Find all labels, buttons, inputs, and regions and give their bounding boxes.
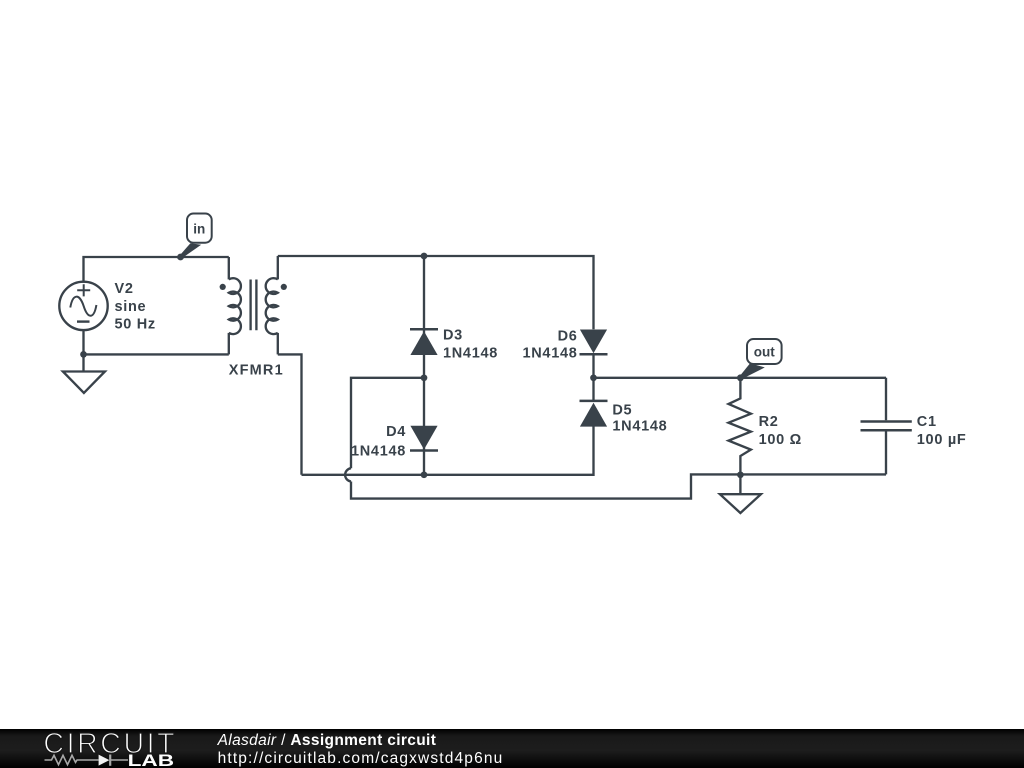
svg-text:50 Hz: 50 Hz [115, 317, 156, 333]
footer url text [218, 750, 504, 768]
wire top-left rail [84, 257, 229, 283]
capacitor C1 [861, 378, 912, 475]
svg-text:1N4148: 1N4148 [351, 444, 406, 460]
node junction at source bottom [80, 351, 87, 358]
label out flag [740, 339, 782, 379]
wire D3 column [423, 256, 425, 378]
label D3 [443, 328, 498, 362]
diode D3 [410, 329, 438, 355]
wire D4 column [423, 378, 425, 475]
svg-text:C1: C1 [917, 414, 937, 430]
wire D6-D5 junction [592, 354, 594, 400]
svg-text:100 Ω: 100 Ω [759, 432, 802, 448]
label D5 [612, 403, 667, 435]
ground under V2 [63, 354, 105, 393]
svg-text:V2: V2 [115, 281, 134, 297]
svg-text:in: in [193, 222, 205, 237]
resistor R2 [729, 378, 751, 475]
svg-text:R2: R2 [759, 414, 779, 430]
transformer XFMR1 [220, 256, 287, 354]
ground under R2 [720, 475, 761, 513]
svg-text:D3: D3 [443, 328, 463, 344]
node junction out [737, 374, 744, 381]
label in flag [180, 214, 212, 258]
node in-anchor dot [177, 254, 184, 261]
svg-text:D6: D6 [558, 329, 578, 345]
node junction D3-D4 [421, 374, 428, 381]
node junction D6-D5 [590, 374, 597, 381]
svg-text:100 µF: 100 µF [917, 432, 967, 448]
node junction top D3 [421, 253, 428, 260]
svg-text:D5: D5 [612, 403, 632, 419]
node junction D4 bottom [421, 471, 428, 478]
svg-text:XFMR1: XFMR1 [229, 363, 284, 379]
wire out rail [594, 377, 887, 379]
diode D6 [580, 330, 608, 355]
svg-text:1N4148: 1N4148 [523, 346, 578, 362]
footer title text [218, 732, 437, 750]
wire bottom mid rail [302, 426, 594, 475]
CircuitLab logo [0, 729, 200, 768]
svg-text:out: out [754, 345, 775, 360]
label C1 [917, 414, 967, 448]
diode D5 [580, 401, 608, 427]
label D4 [351, 424, 406, 460]
voltage source V2 [59, 282, 107, 330]
wire hop over [345, 468, 351, 481]
svg-text:sine: sine [115, 299, 147, 315]
svg-text:1N4148: 1N4148 [443, 346, 498, 362]
diode D4 [410, 426, 438, 451]
node junction R2 bottom [737, 471, 744, 478]
label XFMR1 [229, 363, 284, 379]
svg-text:D4: D4 [386, 424, 406, 440]
label V2 sine 50 Hz [115, 281, 156, 333]
svg-text:LAB: LAB [128, 752, 175, 768]
wire secondary top rail [278, 256, 594, 475]
svg-text:1N4148: 1N4148 [612, 419, 667, 435]
label R2 [759, 414, 802, 448]
label D6 [523, 329, 578, 362]
wire D3D4 to left drop [351, 378, 886, 499]
wire bottom-left rail [84, 331, 229, 355]
